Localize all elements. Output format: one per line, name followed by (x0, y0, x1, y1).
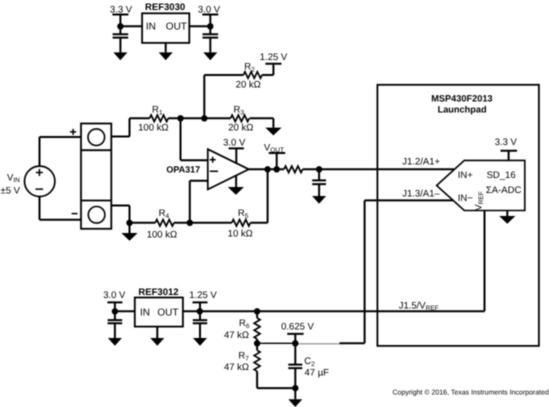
svg-text:1.25 V: 1.25 V (260, 52, 288, 63)
svg-text:VOUT: VOUT (264, 143, 284, 155)
svg-text:1.25 V: 1.25 V (189, 290, 217, 301)
svg-text:100 kΩ: 100 kΩ (147, 229, 177, 240)
svg-text:REF3030: REF3030 (145, 2, 185, 13)
svg-text:Copyright © 2016, Texas Instru: Copyright © 2016, Texas Instruments Inco… (393, 389, 549, 397)
svg-text:R6: R6 (239, 318, 250, 330)
svg-text:ΣA-ADC: ΣA-ADC (486, 185, 522, 196)
svg-text:R4: R4 (159, 208, 170, 220)
svg-text:IN: IN (140, 307, 150, 318)
svg-text:R2: R2 (244, 61, 255, 73)
svg-text:47 kΩ: 47 kΩ (224, 362, 249, 373)
svg-text:IN: IN (146, 22, 156, 33)
svg-text:47 kΩ: 47 kΩ (224, 330, 249, 341)
svg-text:OPA317: OPA317 (166, 165, 200, 175)
svg-text:R7: R7 (238, 350, 249, 362)
svg-text:VREF: VREF (474, 191, 486, 210)
svg-text:VIN: VIN (7, 173, 20, 185)
svg-text:OUT: OUT (157, 307, 178, 318)
svg-text:3.0 V: 3.0 V (103, 290, 126, 301)
svg-text:3.3 V: 3.3 V (495, 137, 518, 148)
svg-text:3.0 V: 3.0 V (198, 4, 221, 15)
svg-text:MSP430F2013: MSP430F2013 (431, 94, 492, 104)
svg-text:IN+: IN+ (458, 170, 474, 181)
svg-text:C2: C2 (304, 356, 315, 368)
svg-text:R3: R3 (234, 104, 245, 116)
svg-text:3.3 V: 3.3 V (110, 4, 133, 15)
svg-text:OUT: OUT (166, 22, 187, 33)
svg-text:R1: R1 (152, 104, 163, 116)
svg-text:R5: R5 (238, 208, 249, 220)
svg-text:20 kΩ: 20 kΩ (236, 80, 261, 91)
svg-text:10 kΩ: 10 kΩ (228, 229, 253, 240)
svg-text:3.0 V: 3.0 V (223, 137, 246, 148)
svg-text:0.625 V: 0.625 V (281, 322, 314, 333)
svg-text:J1.5/VREF: J1.5/VREF (399, 301, 439, 313)
svg-text:REF3012: REF3012 (138, 287, 178, 298)
svg-text:47 µF: 47 µF (305, 367, 330, 378)
svg-text:20 kΩ: 20 kΩ (228, 123, 253, 134)
svg-text:SD_16: SD_16 (487, 170, 516, 181)
svg-text:J1.2/A1+: J1.2/A1+ (402, 157, 440, 168)
svg-text:J1.3/A1–: J1.3/A1– (402, 188, 440, 199)
svg-text:100 kΩ: 100 kΩ (138, 123, 168, 134)
svg-text:±5 V: ±5 V (1, 185, 21, 196)
svg-text:Launchpad: Launchpad (438, 104, 487, 114)
svg-text:IN−: IN− (458, 193, 474, 204)
